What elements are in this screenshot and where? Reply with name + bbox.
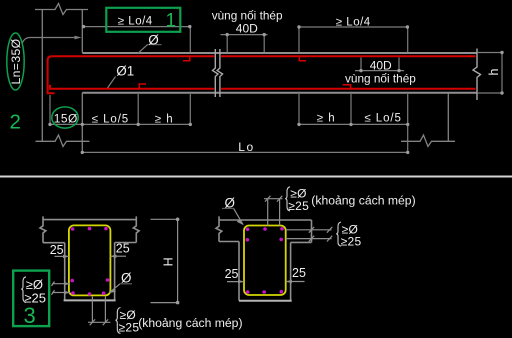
svg-text:≥ Lo/4: ≥ Lo/4 — [336, 16, 371, 28]
H dim dots — [176, 218, 180, 222]
right section slab top — [219, 219, 312, 221]
Lo dimension line — [82, 151, 407, 153]
svg-text:3: 3 — [24, 303, 36, 328]
extension x299 lower — [298, 94, 300, 124]
underline O left section — [120, 283, 132, 285]
svg-text:(khoảng cách mép): (khoảng cách mép) — [138, 316, 242, 330]
bottom dim line left group — [50, 123, 190, 125]
right section slab soffit right — [291, 241, 312, 243]
right section slab soffit left — [219, 241, 239, 243]
svg-text:H: H — [162, 257, 176, 266]
break line top-left support — [35, 4, 88, 15]
dimension line >=Lo/4 right — [299, 26, 408, 28]
green box 3 — [13, 271, 49, 327]
green box 1 — [106, 8, 180, 32]
dim dots — [82, 25, 85, 28]
svg-text:(khoảng cách mép): (khoảng cách mép) — [311, 194, 415, 208]
extension line x408 — [407, 27, 409, 52]
right section slab-break left with zigzag — [216, 216, 222, 241]
right section slab right edge — [311, 220, 313, 242]
leader O left section — [110, 284, 121, 293]
left section slab-break left with zigzag — [40, 216, 46, 242]
svg-text:25: 25 — [50, 243, 64, 257]
right section web right face — [290, 242, 292, 300]
spacing dim line left section — [88, 321, 110, 323]
leader O right section — [234, 208, 243, 224]
slash tick 3 — [265, 196, 270, 202]
svg-text:Ø: Ø — [148, 32, 159, 47]
dimension line 40D top — [221, 34, 268, 36]
h dim bottom tick — [477, 92, 504, 94]
svg-text:25: 25 — [116, 241, 130, 255]
spacing dim extension 1 left section — [91, 297, 93, 323]
rebar dots right section top row — [246, 228, 250, 232]
svg-text:Ø: Ø — [225, 195, 235, 210]
extension x408 lower — [407, 94, 409, 152]
arrowhead leader O left section — [109, 289, 116, 293]
extension line x299 — [298, 27, 300, 52]
stirrup right section — [244, 226, 286, 296]
break line bottom-left support — [36, 135, 90, 147]
h dim vertical — [501, 53, 503, 94]
extension x50 — [49, 95, 51, 124]
svg-text:Ln=35Ø: Ln=35Ø — [9, 38, 23, 84]
brace bottom-left annotation — [116, 308, 121, 334]
rebar dots right section second row — [246, 238, 250, 242]
h dim top tick — [477, 52, 504, 54]
extension line x190 — [189, 27, 191, 53]
bottom rebar lap hook of left piece end — [343, 85, 351, 89]
slash tick 8 — [327, 236, 332, 242]
slash tick 4 — [277, 196, 282, 202]
cover dim arrow right of right section — [286, 281, 305, 283]
slash tick 7 — [309, 236, 314, 242]
slash tick 2 — [103, 319, 108, 325]
svg-text:Lo: Lo — [238, 140, 254, 154]
bottom rebar lap hook of right piece start — [139, 84, 146, 89]
beam top edge — [82, 52, 477, 54]
cover dim arrow left — [55, 255, 69, 257]
left section slab top — [43, 219, 136, 221]
dimension line 40D bottom-right — [355, 70, 404, 72]
svg-text:≥ h: ≥ h — [155, 113, 174, 125]
green ellipse 15-d — [52, 107, 78, 128]
svg-text:40D: 40D — [236, 21, 258, 35]
svg-text:≤ Lo/5: ≤ Lo/5 — [92, 113, 129, 125]
underline O right section — [222, 207, 234, 209]
cover dim arrow left of right section — [227, 281, 244, 283]
svg-text:≥25: ≥25 — [119, 321, 140, 335]
arrowhead cover right right-section — [286, 280, 292, 283]
svg-text:≥25: ≥25 — [288, 199, 309, 213]
rebar dots left section bottom row — [71, 291, 75, 295]
bottom rebar left piece — [50, 85, 214, 89]
slash tick 1 — [90, 319, 95, 325]
splice cut line 2 — [217, 49, 223, 97]
svg-text:≤ Lo/5: ≤ Lo/5 — [365, 112, 402, 124]
right section bottom edge — [239, 300, 292, 302]
brace in green box — [21, 277, 26, 303]
extension line x264 — [263, 35, 265, 53]
divider line — [0, 176, 512, 178]
extension line x399 — [398, 58, 400, 71]
leader Ln=350 — [22, 38, 78, 45]
green ellipse Ln=350 — [7, 33, 24, 90]
leader O1 — [108, 77, 116, 89]
column face left (lower segment) — [81, 93, 83, 153]
extension line x227 — [226, 35, 228, 53]
slash tick 5 — [309, 227, 314, 233]
svg-text:≥ h: ≥ h — [317, 112, 336, 124]
svg-text:≥25: ≥25 — [341, 235, 362, 249]
edge dist dim line 1 right section — [286, 229, 332, 231]
svg-text:Ø: Ø — [121, 270, 131, 285]
bottom rebar right piece — [221, 88, 476, 90]
leader O top — [138, 45, 148, 54]
svg-text:h: h — [487, 68, 501, 75]
splice cut line 1 — [213, 49, 219, 97]
extension line x361 — [360, 58, 362, 71]
H dim bottom tick — [151, 302, 178, 304]
brace right annotation — [336, 222, 341, 246]
beam right break line — [473, 49, 481, 101]
svg-text:15Ø: 15Ø — [54, 112, 78, 126]
left section bottom edge — [64, 299, 116, 301]
svg-text:1: 1 — [166, 11, 177, 32]
H dim top tick — [151, 218, 178, 220]
column face left (upper segment) — [81, 10, 83, 53]
svg-text:vùng nối thép: vùng nối thép — [345, 71, 416, 85]
top rebar lap hook at right piece start — [299, 56, 306, 61]
left section web left face — [64, 243, 66, 301]
stirrup left section — [69, 225, 111, 295]
H dim vertical — [177, 219, 179, 302]
extension x351 lower — [350, 94, 352, 124]
spacing dim extension 1 right section — [267, 199, 269, 226]
arrowhead cover right — [110, 255, 116, 258]
arrowhead cover left — [63, 255, 69, 258]
extension x138 — [137, 94, 139, 124]
spacing dim extension 2 right section — [279, 199, 281, 226]
extension x190 lower — [189, 94, 191, 124]
svg-text:25: 25 — [225, 267, 239, 281]
leader arrow Ln=350 — [75, 36, 82, 40]
support centerline left — [41, 10, 43, 142]
left section slab soffit left — [43, 242, 65, 244]
arrowhead cover left right-section — [238, 280, 244, 283]
break line bottom-right support — [401, 135, 455, 147]
leader 1 from green box with zigzag — [52, 282, 71, 287]
beam bottom edge — [82, 92, 477, 94]
arrowhead leader2 green box — [64, 291, 70, 294]
left section slab soffit right — [115, 242, 137, 244]
column face right — [447, 94, 449, 142]
underline O top — [148, 44, 162, 46]
rebar dots right section bottom row — [246, 290, 250, 294]
edge dist dim line 2 right section — [286, 238, 332, 240]
cover dim arrow right — [110, 255, 126, 257]
left section slab-break right with zigzag — [133, 216, 139, 242]
top rebar lap hook at left piece end — [183, 56, 190, 61]
spacing dim line right section top — [264, 198, 283, 200]
dimension line >=Lo/4 left — [83, 26, 191, 28]
right section web left face — [238, 242, 240, 301]
svg-text:25: 25 — [292, 266, 306, 280]
arrowhead leader1 green box — [64, 282, 70, 285]
arrowhead leader O right section — [237, 220, 244, 226]
top rebar right piece — [221, 55, 476, 57]
slash tick 6 — [327, 227, 332, 233]
svg-text:2: 2 — [10, 110, 21, 133]
leader 2 from green box with zigzag — [52, 290, 71, 295]
rebar dots left section top row — [71, 227, 75, 231]
bottom dim line right group — [299, 123, 408, 125]
spacing dim extension 2 left section — [104, 297, 106, 323]
top rebar left piece — [48, 56, 215, 93]
svg-text:≥ Lo/4: ≥ Lo/4 — [118, 16, 153, 28]
rebar dots left section mid row — [70, 279, 74, 283]
svg-text:Ø1: Ø1 — [116, 64, 134, 79]
brace top annotation — [285, 187, 290, 211]
left section web right face — [114, 243, 116, 301]
